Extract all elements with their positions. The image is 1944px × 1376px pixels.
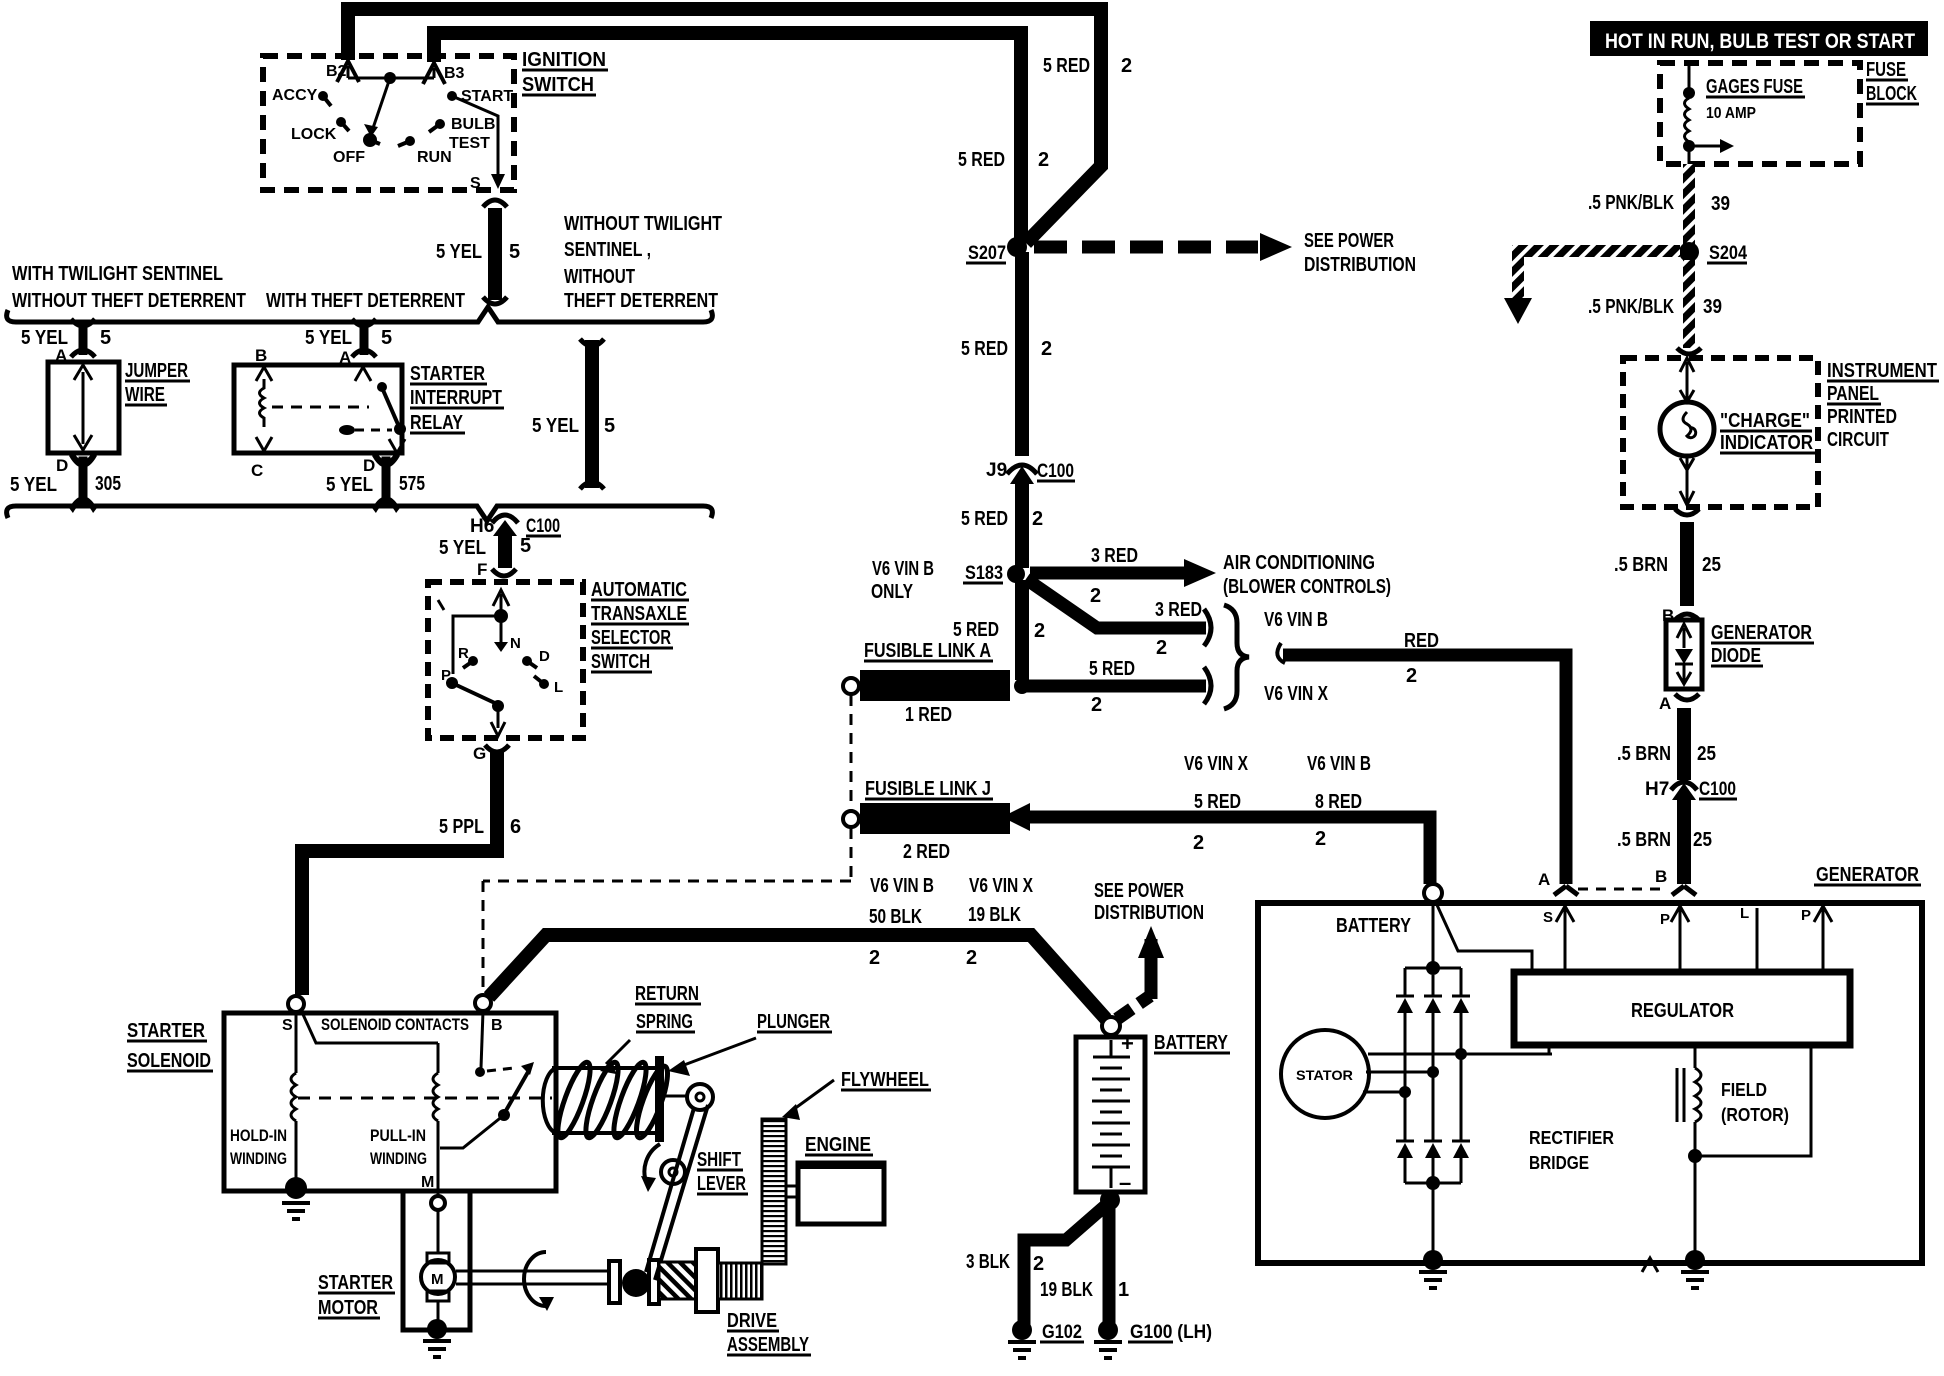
svg-text:FUSIBLE LINK A: FUSIBLE LINK A [864, 640, 991, 662]
svg-text:S: S [282, 1017, 293, 1034]
svg-text:RECTIFIER: RECTIFIER [1529, 1128, 1614, 1148]
svg-text:.5 BRN: .5 BRN [1617, 829, 1671, 851]
svg-text:START: START [461, 88, 513, 105]
svg-text:S207: S207 [968, 243, 1006, 264]
svg-text:AIR CONDITIONING: AIR CONDITIONING [1223, 552, 1375, 574]
svg-text:SEE POWER: SEE POWER [1094, 880, 1184, 902]
svg-text:BATTERY: BATTERY [1336, 915, 1412, 937]
svg-text:5: 5 [381, 327, 392, 349]
svg-text:5 RED: 5 RED [1043, 55, 1090, 77]
svg-text:A: A [339, 348, 351, 367]
svg-text:IGNITION: IGNITION [522, 49, 606, 71]
svg-text:B: B [1662, 606, 1674, 625]
svg-text:3 BLK: 3 BLK [966, 1251, 1010, 1273]
svg-text:B3: B3 [444, 65, 465, 82]
svg-text:ACCY: ACCY [272, 87, 318, 104]
svg-text:WITHOUT THEFT DETERRENT: WITHOUT THEFT DETERRENT [12, 290, 246, 312]
svg-text:RETURN: RETURN [635, 983, 699, 1005]
svg-text:WITH THEFT DETERRENT: WITH THEFT DETERRENT [266, 290, 465, 312]
svg-text:5: 5 [604, 415, 615, 437]
svg-text:(ROTOR): (ROTOR) [1721, 1105, 1789, 1125]
svg-text:5 RED: 5 RED [1089, 658, 1135, 680]
svg-text:INDICATOR: INDICATOR [1720, 432, 1813, 454]
svg-text:(BLOWER CONTROLS): (BLOWER CONTROLS) [1223, 576, 1391, 598]
svg-text:2: 2 [1121, 55, 1132, 77]
svg-text:SEE POWER: SEE POWER [1304, 230, 1394, 252]
svg-text:2: 2 [869, 947, 880, 969]
svg-text:STATOR: STATOR [1296, 1067, 1353, 1083]
svg-text:39: 39 [1703, 296, 1722, 318]
svg-text:WINDING: WINDING [370, 1149, 427, 1168]
svg-text:LOCK: LOCK [291, 126, 337, 143]
svg-text:C100: C100 [526, 516, 560, 537]
svg-text:DISTRIBUTION: DISTRIBUTION [1094, 902, 1204, 924]
svg-text:BLOCK: BLOCK [1866, 83, 1917, 105]
svg-text:305: 305 [95, 473, 121, 495]
svg-text:D: D [539, 648, 550, 665]
svg-text:.5 PNK/BLK: .5 PNK/BLK [1588, 192, 1674, 214]
svg-text:CIRCUIT: CIRCUIT [1827, 429, 1889, 451]
svg-text:L: L [1740, 905, 1749, 922]
svg-text:19 BLK: 19 BLK [1040, 1279, 1093, 1301]
svg-text:2: 2 [1033, 1253, 1044, 1275]
svg-text:PULL-IN: PULL-IN [370, 1126, 426, 1145]
svg-text:TEST: TEST [449, 135, 490, 152]
svg-text:.5 BRN: .5 BRN [1617, 743, 1671, 765]
svg-text:FUSIBLE LINK J: FUSIBLE LINK J [865, 778, 991, 800]
svg-text:ENGINE: ENGINE [805, 1134, 871, 1156]
svg-text:V6 VIN X: V6 VIN X [969, 875, 1034, 897]
svg-text:1: 1 [1118, 1279, 1129, 1301]
svg-text:STARTER: STARTER [410, 363, 485, 385]
svg-text:10 AMP: 10 AMP [1706, 105, 1756, 122]
svg-text:3 RED: 3 RED [1155, 599, 1202, 621]
svg-text:L: L [554, 679, 563, 696]
svg-text:SWITCH: SWITCH [522, 74, 594, 96]
svg-text:39: 39 [1711, 193, 1730, 215]
svg-text:BATTERY: BATTERY [1154, 1032, 1229, 1054]
svg-text:HOLD-IN: HOLD-IN [230, 1126, 287, 1145]
svg-text:1 RED: 1 RED [905, 704, 952, 726]
svg-text:2: 2 [1090, 585, 1101, 607]
svg-text:BULB: BULB [451, 116, 495, 133]
svg-text:2: 2 [1315, 828, 1326, 850]
svg-text:GENERATOR: GENERATOR [1711, 622, 1812, 644]
svg-text:SWITCH: SWITCH [591, 651, 650, 673]
svg-text:V6 VIN B: V6 VIN B [872, 558, 934, 580]
svg-text:5 RED: 5 RED [961, 338, 1008, 360]
svg-text:5 YEL: 5 YEL [436, 241, 482, 263]
svg-text:DIODE: DIODE [1711, 645, 1761, 667]
svg-text:C100: C100 [1699, 779, 1736, 800]
svg-text:GAGES FUSE: GAGES FUSE [1706, 76, 1803, 98]
svg-text:PRINTED: PRINTED [1827, 406, 1897, 428]
svg-text:THEFT DETERRENT: THEFT DETERRENT [564, 290, 718, 312]
svg-text:H7: H7 [1645, 779, 1669, 800]
svg-text:RED: RED [1404, 630, 1439, 652]
svg-text:FUSE: FUSE [1866, 59, 1906, 81]
svg-text:OFF: OFF [333, 149, 365, 166]
svg-text:J9: J9 [986, 460, 1007, 481]
svg-text:2: 2 [1193, 832, 1204, 854]
svg-text:2: 2 [966, 947, 977, 969]
svg-text:5 YEL: 5 YEL [326, 474, 373, 496]
svg-text:M: M [421, 1174, 434, 1191]
svg-text:MOTOR: MOTOR [318, 1297, 378, 1319]
svg-text:F: F [477, 560, 487, 579]
svg-text:WINDING: WINDING [230, 1149, 287, 1168]
svg-text:D: D [363, 456, 375, 475]
svg-text:19 BLK: 19 BLK [968, 904, 1021, 926]
svg-text:V6 VIN B: V6 VIN B [1307, 753, 1371, 775]
svg-text:STARTER: STARTER [127, 1020, 205, 1042]
svg-text:S: S [470, 175, 481, 192]
svg-text:AUTOMATIC: AUTOMATIC [591, 579, 687, 601]
svg-text:3 RED: 3 RED [1091, 545, 1138, 567]
svg-text:FIELD: FIELD [1721, 1080, 1767, 1100]
svg-text:C: C [251, 461, 263, 480]
svg-text:P: P [1801, 907, 1811, 924]
svg-text:TRANSAXLE: TRANSAXLE [591, 603, 687, 625]
svg-text:H6: H6 [470, 516, 494, 537]
svg-text:WITHOUT: WITHOUT [564, 266, 635, 288]
svg-text:D: D [56, 456, 68, 475]
svg-text:V6 VIN X: V6 VIN X [1184, 753, 1249, 775]
svg-text:575: 575 [399, 473, 425, 495]
svg-text:DISTRIBUTION: DISTRIBUTION [1304, 254, 1416, 276]
svg-text:REGULATOR: REGULATOR [1631, 1000, 1734, 1022]
svg-text:5 YEL: 5 YEL [305, 327, 352, 349]
svg-text:PANEL: PANEL [1827, 383, 1879, 405]
svg-text:5 RED: 5 RED [958, 149, 1005, 171]
svg-text:5 YEL: 5 YEL [532, 415, 579, 437]
svg-text:25: 25 [1697, 743, 1716, 765]
svg-text:2: 2 [1406, 665, 1417, 687]
svg-text:A: A [55, 346, 67, 365]
svg-text:5: 5 [520, 535, 531, 557]
svg-text:25: 25 [1702, 554, 1721, 576]
svg-text:5 YEL: 5 YEL [10, 474, 57, 496]
svg-text:STARTER: STARTER [318, 1272, 393, 1294]
svg-text:A: A [1538, 870, 1550, 889]
svg-text:B: B [491, 1017, 503, 1034]
svg-text:A: A [1659, 694, 1671, 713]
svg-text:SOLENOID: SOLENOID [127, 1050, 211, 1072]
svg-text:+: + [1121, 1031, 1134, 1056]
svg-text:C100: C100 [1037, 461, 1074, 482]
svg-text:B2: B2 [326, 63, 347, 80]
svg-text:HOT IN RUN, BULB TEST OR STAR: HOT IN RUN, BULB TEST OR START [1605, 30, 1915, 53]
svg-text:.5 BRN: .5 BRN [1614, 554, 1668, 576]
svg-text:5: 5 [509, 241, 520, 263]
svg-text:WIRE: WIRE [125, 384, 165, 406]
svg-text:SHIFT: SHIFT [697, 1149, 741, 1171]
svg-text:.5 PNK/BLK: .5 PNK/BLK [1588, 296, 1674, 318]
svg-text:50 BLK: 50 BLK [869, 906, 922, 928]
svg-text:"CHARGE": "CHARGE" [1720, 410, 1810, 432]
svg-text:G100 (LH): G100 (LH) [1130, 1322, 1212, 1343]
svg-text:SELECTOR: SELECTOR [591, 627, 671, 649]
svg-text:SENTINEL ,: SENTINEL , [564, 239, 651, 261]
svg-text:LEVER: LEVER [697, 1173, 746, 1195]
svg-text:SOLENOID CONTACTS: SOLENOID CONTACTS [321, 1015, 469, 1034]
svg-text:V6 VIN B: V6 VIN B [870, 875, 934, 897]
svg-text:2 RED: 2 RED [903, 841, 950, 863]
svg-text:5 YEL: 5 YEL [439, 537, 486, 559]
svg-text:S204: S204 [1709, 243, 1747, 264]
svg-text:2: 2 [1038, 149, 1049, 171]
svg-text:P: P [1660, 911, 1670, 928]
svg-text:5 RED: 5 RED [1194, 791, 1241, 813]
svg-text:2: 2 [1156, 637, 1167, 659]
svg-text:5 RED: 5 RED [961, 508, 1008, 530]
svg-text:5 PPL: 5 PPL [439, 816, 484, 838]
svg-text:B: B [255, 346, 267, 365]
svg-text:S183: S183 [965, 563, 1003, 584]
svg-text:INSTRUMENT: INSTRUMENT [1827, 360, 1937, 382]
svg-text:GENERATOR: GENERATOR [1816, 864, 1919, 886]
svg-text:5: 5 [100, 327, 111, 349]
svg-text:FLYWHEEL: FLYWHEEL [841, 1069, 929, 1091]
svg-text:S: S [1543, 909, 1553, 926]
svg-text:RUN: RUN [417, 149, 452, 166]
svg-text:INTERRUPT: INTERRUPT [410, 387, 502, 409]
svg-text:2: 2 [1032, 508, 1043, 530]
svg-text:2: 2 [1034, 620, 1045, 642]
svg-text:V6 VIN X: V6 VIN X [1264, 683, 1329, 705]
svg-text:ONLY: ONLY [871, 581, 914, 603]
svg-text:JUMPER: JUMPER [125, 360, 188, 382]
svg-text:N: N [510, 635, 521, 652]
svg-text:G: G [473, 744, 486, 763]
svg-text:RELAY: RELAY [410, 412, 464, 434]
svg-text:8 RED: 8 RED [1315, 791, 1362, 813]
svg-text:WITH TWILIGHT SENTINEL: WITH TWILIGHT SENTINEL [12, 263, 223, 285]
svg-text:2: 2 [1041, 338, 1052, 360]
svg-text:R: R [458, 645, 469, 662]
svg-text:M: M [431, 1271, 444, 1288]
svg-text:PLUNGER: PLUNGER [757, 1011, 830, 1033]
svg-text:5 RED: 5 RED [953, 619, 999, 641]
svg-text:WITHOUT TWILIGHT: WITHOUT TWILIGHT [564, 213, 722, 235]
svg-text:–: – [1119, 1170, 1131, 1195]
svg-text:BRIDGE: BRIDGE [1529, 1153, 1589, 1173]
svg-text:V6 VIN B: V6 VIN B [1264, 609, 1328, 631]
svg-text:2: 2 [1091, 694, 1102, 716]
svg-text:6: 6 [510, 816, 521, 838]
svg-text:P: P [441, 667, 451, 684]
svg-text:B: B [1655, 867, 1667, 886]
svg-text:SPRING: SPRING [636, 1011, 693, 1033]
svg-text:25: 25 [1693, 829, 1712, 851]
svg-text:ASSEMBLY: ASSEMBLY [727, 1334, 809, 1356]
svg-text:G102: G102 [1042, 1322, 1082, 1343]
svg-text:DRIVE: DRIVE [727, 1310, 777, 1332]
